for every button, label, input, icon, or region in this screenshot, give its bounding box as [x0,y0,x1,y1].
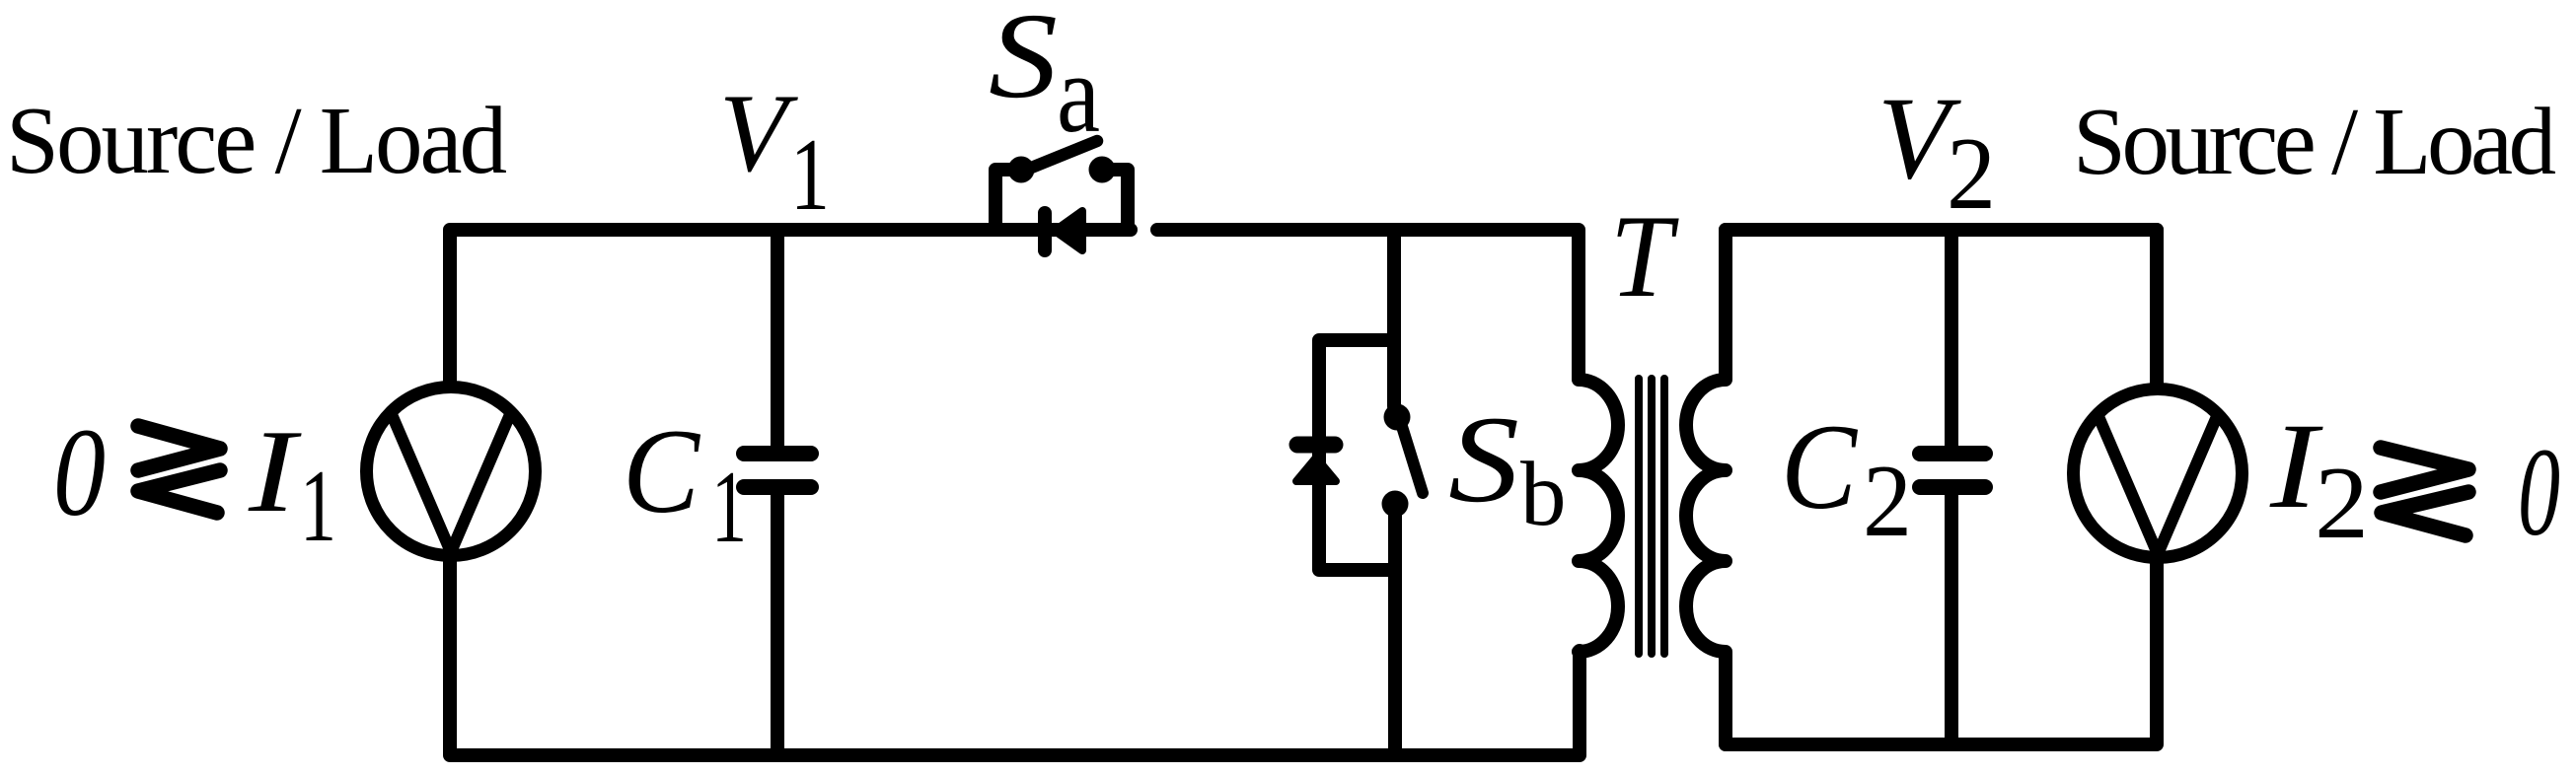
symbol greater-less I2 [2381,448,2468,492]
svg-text:1: 1 [300,448,336,563]
diode Da triangle [1055,211,1082,250]
switch Sa left riser [995,170,1016,230]
svg-text:T: T [1610,190,1679,321]
wire: right rail lower + bottom rail [1726,562,2157,744]
svg-text:S: S [1448,391,1519,528]
svg-text:2: 2 [2315,445,2369,560]
svg-text:2: 2 [1863,443,1912,558]
switch Sb contact dots [1384,404,1411,431]
switch Sa contact dots [1008,157,1035,183]
svg-text:a: a [1057,33,1100,156]
svg-text:C: C [1781,399,1858,534]
transformer T secondary winding [1686,230,1726,744]
wire: Sb branch upper [1387,233,1401,406]
svg-text:2: 2 [1947,115,1996,231]
svg-text:0: 0 [2518,422,2560,562]
diode Db triangle [1296,458,1336,481]
svg-text:0: 0 [53,402,106,542]
capacitor C1 top lead [771,230,784,446]
symbol greater-less I1 [138,426,220,470]
current source I1 arrow V [391,412,511,552]
wire: left rail lower + bottom rail + transformer primary bottom stub [450,560,1580,755]
switch Sb lever [1400,420,1423,493]
capacitor C1 plates [744,446,811,461]
svg-text:I: I [248,405,302,536]
svg-text:b: b [1520,444,1567,545]
wire: top rail right of Sa + corner down + transformer T primary winding [1157,230,1618,652]
svg-text:Source / Load: Source / Load [2073,89,2556,194]
svg-text:V: V [719,72,798,195]
wire: Sb branch lower [1388,515,1402,755]
wire: left loop top-left (left rail upper + top rail to Sa) [450,230,1131,383]
svg-text:1: 1 [790,116,830,232]
wire: right rail upper [2150,230,2164,385]
switch Sa lever [1024,141,1097,171]
diode Db cathode bar [1297,437,1335,454]
capacitor C2 plates [1920,446,1985,461]
switch Sa right riser [1107,170,1128,230]
diode Da (on Sa wire) cathode bar [1038,213,1052,250]
wire: Sb antiparallel diode loop [1319,340,1394,570]
transformer T core [1635,379,1643,654]
svg-text:S: S [989,0,1058,123]
wire: right loop top rail [1726,223,2157,237]
svg-text:C: C [623,403,701,538]
capacitor C2 bottom lead [1945,495,1958,744]
svg-text:Source / Load: Source / Load [6,88,507,193]
current source I2 circle [2074,389,2243,558]
capacitor C2 top lead [1945,230,1958,446]
svg-text:1: 1 [711,449,747,564]
current source I2 arrow V [2098,414,2218,554]
capacitor C1 bottom lead [771,495,784,755]
current source I1 circle [367,387,536,556]
